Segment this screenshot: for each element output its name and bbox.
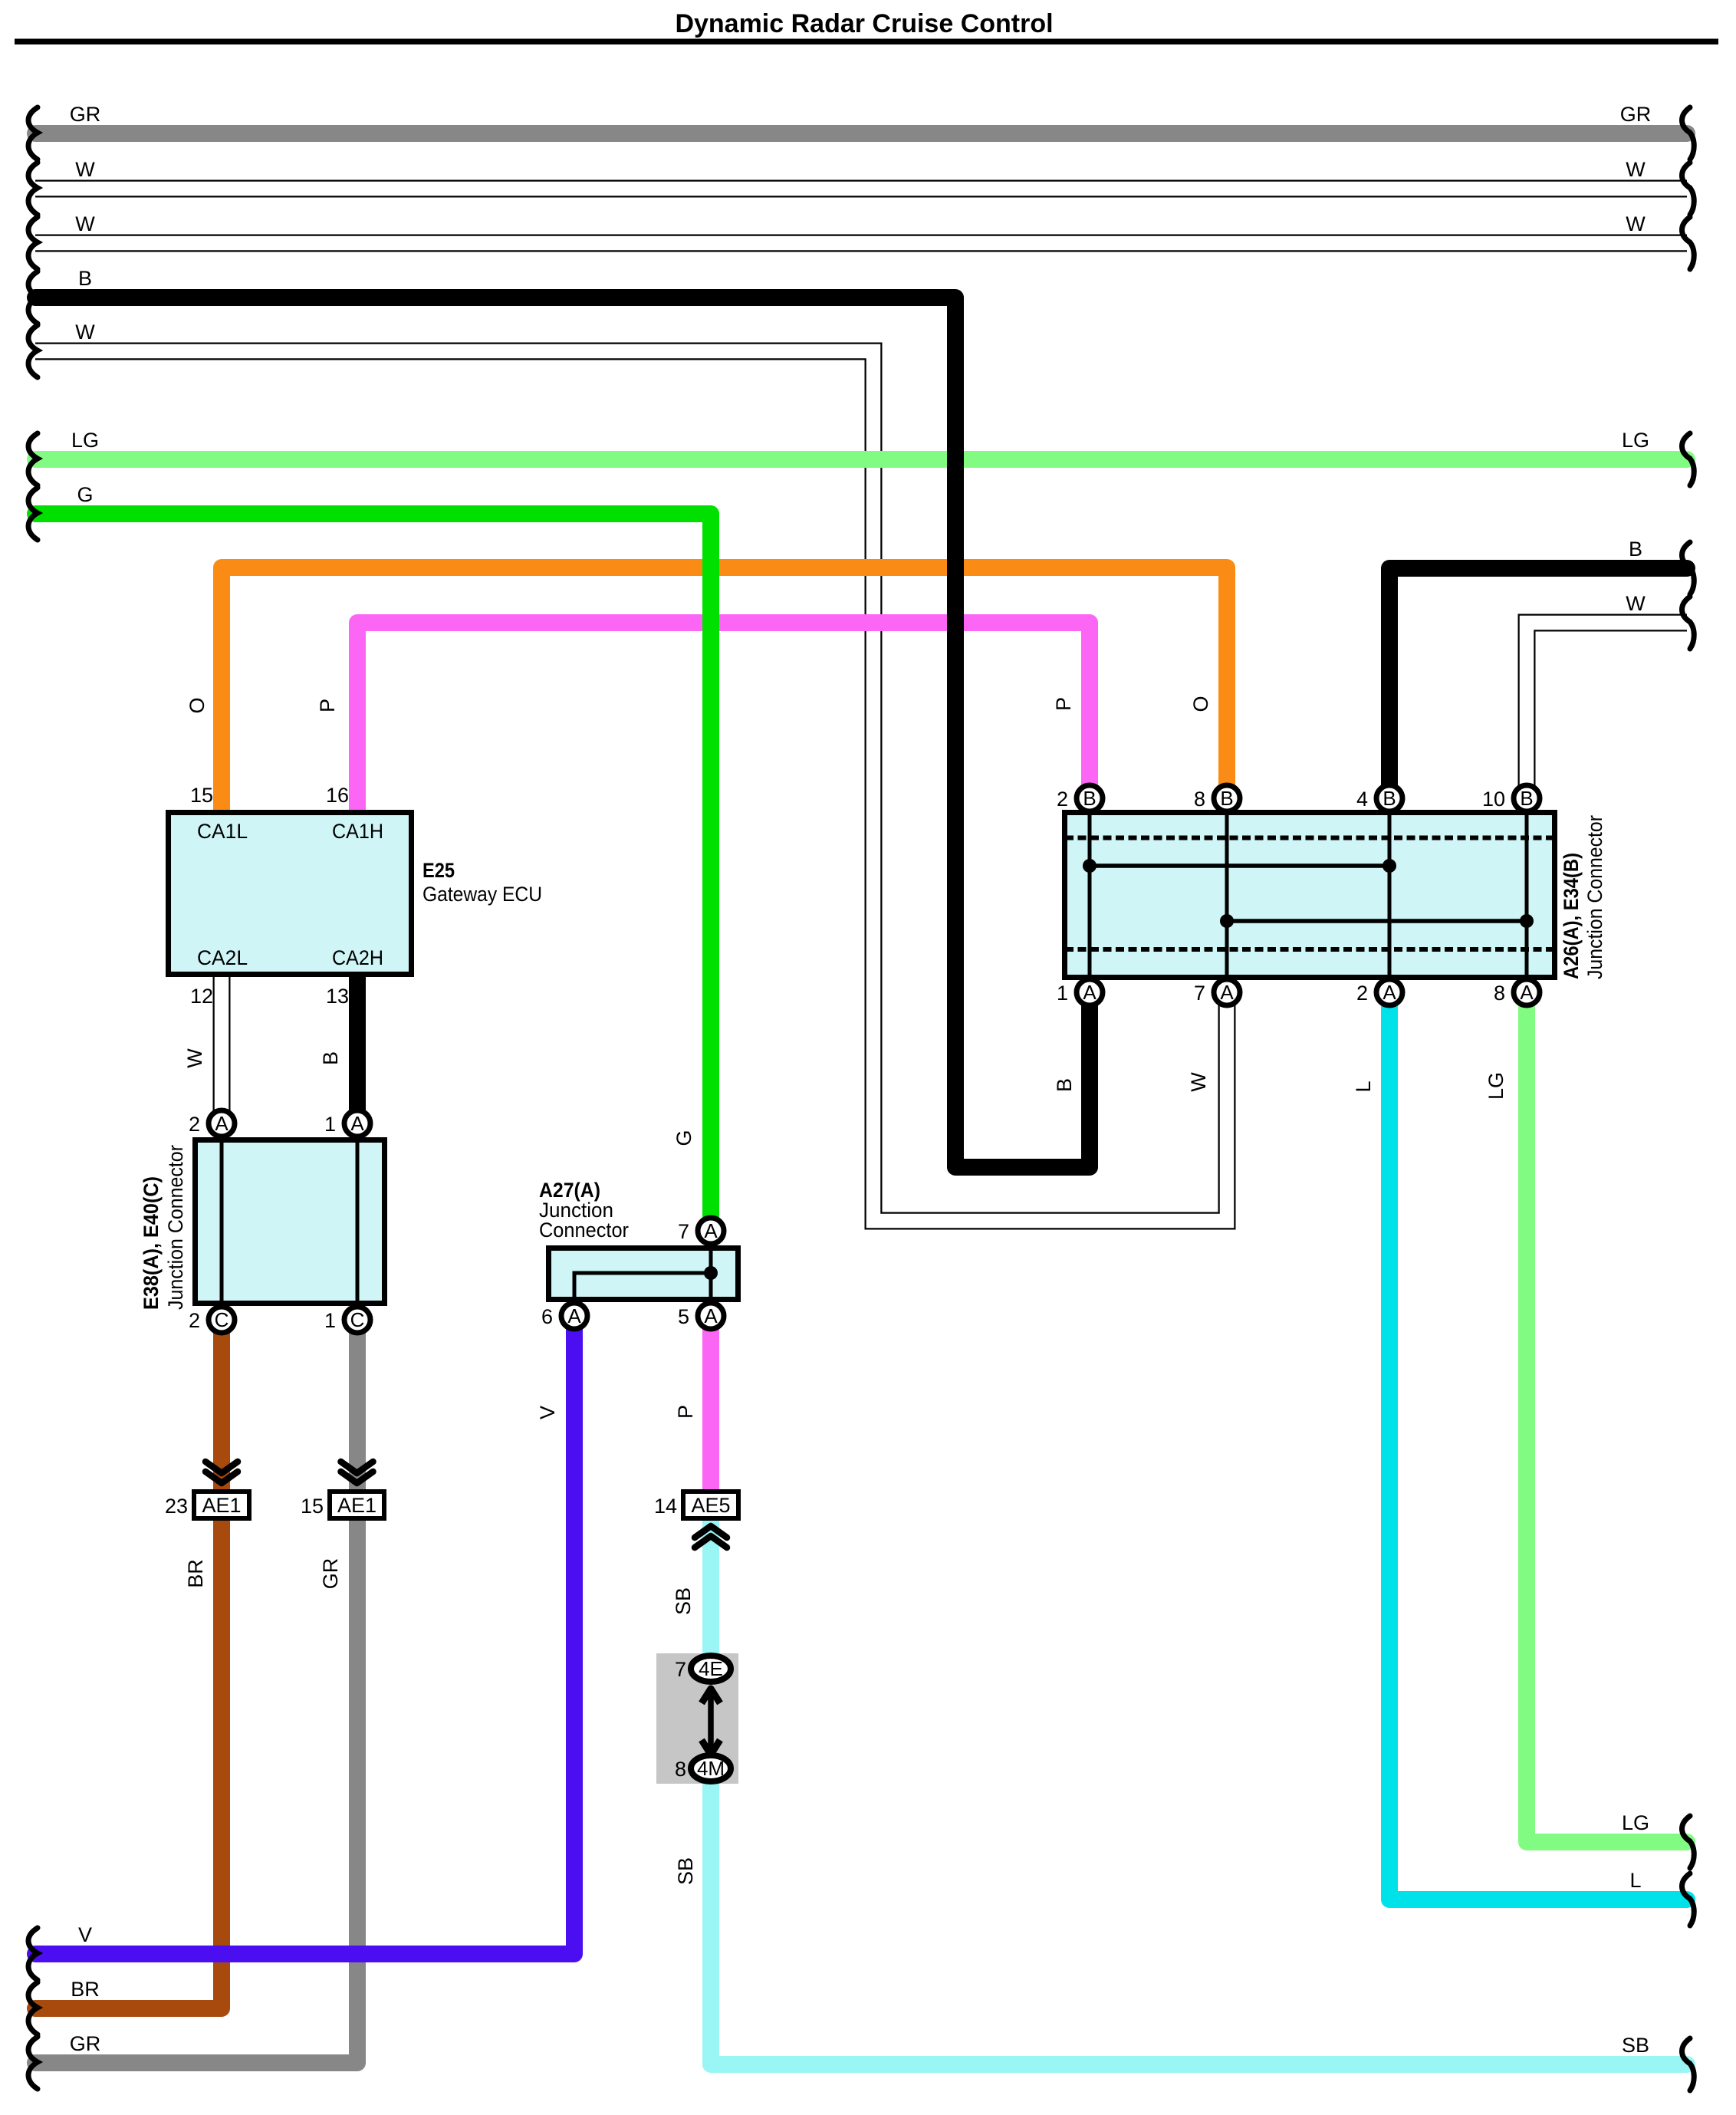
chevrons above AE1 no15 (341, 1462, 373, 1473)
svg-text:W: W (1187, 1072, 1210, 1092)
svg-text:P: P (316, 699, 339, 712)
svg-text:AE1: AE1 (202, 1494, 241, 1517)
wire W E25 pin12 to E38 pin 2A (white) (213, 974, 231, 1123)
svg-text:LG: LG (1622, 429, 1649, 452)
continuation symbol left LG top (28, 433, 38, 485)
svg-text:W: W (75, 321, 95, 344)
wire O (orange) E25 pin15 to A26 pin 8B (222, 567, 1227, 813)
continuation symbol right W2 (1682, 217, 1695, 269)
svg-text:A: A (567, 1304, 581, 1327)
wire SB upper (A27 5A via AE5 to 4E) (702, 1521, 719, 1656)
continuation symbol left GR bottom (28, 2037, 38, 2089)
gateway ECU E25 box (169, 813, 412, 975)
svg-text:A: A (1083, 981, 1097, 1004)
E38 label rotated (140, 1145, 187, 1310)
svg-text:2: 2 (1356, 982, 1368, 1005)
svg-text:O: O (1189, 696, 1212, 712)
continuation symbol left W3 (28, 325, 38, 377)
A26 solid bus 1 with junction dots (1090, 863, 1389, 868)
continuation symbol left W2 (28, 217, 38, 269)
A27 pin 7A (678, 1218, 724, 1244)
svg-text:B: B (319, 1051, 342, 1065)
continuation symbol left B top (28, 271, 38, 324)
wire GR bottom E38 pin 1C to left edge (35, 1320, 357, 2063)
svg-text:Junction Connector: Junction Connector (164, 1145, 187, 1310)
svg-text:16: 16 (326, 784, 349, 807)
svg-text:C: C (215, 1308, 229, 1331)
wire P (pink) E25 pin16 to A26 pin 2B (357, 623, 1090, 813)
svg-text:P: P (1052, 697, 1075, 711)
svg-text:A: A (1383, 981, 1396, 1004)
shielded pass-through 4E/4M block (656, 1653, 738, 1784)
svg-text:Junction Connector: Junction Connector (1583, 815, 1606, 979)
svg-text:8: 8 (675, 1758, 686, 1781)
chevrons below AE5 (695, 1526, 727, 1538)
svg-text:8: 8 (1194, 788, 1205, 811)
continuation symbol left BR (28, 1982, 38, 2034)
svg-text:4E: 4E (699, 1657, 723, 1680)
svg-text:2: 2 (1057, 788, 1068, 811)
continuation symbol left G (28, 488, 38, 540)
svg-text:G: G (672, 1130, 695, 1146)
wire LG bottom A26 pin 8A to right edge (1527, 992, 1687, 1842)
connector 4E (691, 1656, 731, 1682)
continuation symbol right LG bottom (1682, 1816, 1695, 1868)
svg-text:SB: SB (674, 1857, 697, 1885)
svg-text:4: 4 (1356, 788, 1368, 811)
svg-text:12: 12 (190, 985, 213, 1008)
A26 pin 1A (1057, 979, 1103, 1005)
connector AE1 no15 (330, 1492, 384, 1518)
continuation symbol right LG top (1682, 433, 1695, 485)
svg-text:6: 6 (541, 1305, 553, 1328)
svg-text:1: 1 (1057, 982, 1068, 1005)
svg-text:7: 7 (678, 1220, 689, 1243)
A26 pin 7A (1194, 979, 1240, 1005)
svg-text:4M: 4M (697, 1757, 725, 1780)
continuation symbol right B right (1682, 542, 1695, 594)
wire W2 (white) (35, 235, 1687, 252)
svg-text:C: C (350, 1308, 365, 1331)
svg-text:W: W (1626, 592, 1646, 615)
svg-text:B: B (1383, 787, 1396, 810)
svg-text:GR: GR (70, 2032, 101, 2055)
svg-text:LG: LG (1622, 1811, 1649, 1834)
svg-text:10: 10 (1482, 788, 1505, 811)
wire V A27 pin 6A to left edge (35, 1316, 574, 1954)
svg-text:AE1: AE1 (337, 1494, 376, 1517)
A27 pin 5A (678, 1303, 724, 1329)
svg-text:CA2L: CA2L (197, 946, 248, 969)
wire B E25 pin13 to E38 pin 1A (349, 974, 366, 1123)
svg-text:G: G (77, 483, 93, 506)
svg-text:W: W (75, 212, 95, 235)
connector AE1 no23 (194, 1492, 249, 1518)
chevrons above AE1 no23 (205, 1462, 727, 1548)
svg-text:5: 5 (678, 1305, 689, 1328)
svg-text:P: P (674, 1405, 697, 1419)
wire SB lower (4M to right edge) (711, 1771, 1687, 2064)
E38 pin 2A (189, 1110, 235, 1136)
svg-text:2: 2 (189, 1309, 200, 1332)
svg-text:Connector: Connector (539, 1219, 629, 1242)
continuation symbol left V (28, 1928, 38, 1980)
svg-text:LG: LG (71, 429, 99, 452)
wire L (cyan) A26 pin 2A to right edge (1389, 992, 1687, 1900)
svg-text:SB: SB (1622, 2034, 1649, 2057)
svg-text:Gateway ECU: Gateway ECU (422, 883, 542, 906)
wire B right edge to A26 pin 4B (1389, 568, 1687, 798)
svg-text:B: B (1083, 787, 1096, 810)
svg-text:V: V (78, 1923, 92, 1946)
svg-text:A: A (1520, 981, 1534, 1004)
svg-text:15: 15 (301, 1495, 324, 1518)
svg-text:W: W (1626, 158, 1646, 181)
continuation symbol right L (1682, 1873, 1695, 1926)
svg-text:A26(A), E34(B): A26(A), E34(B) (1560, 853, 1583, 979)
wire B top left edge to A26 pin 1A (35, 298, 1090, 1167)
svg-text:B: B (1629, 538, 1642, 561)
wire G (green) left edge to A27 pin 7A (35, 514, 711, 1231)
svg-text:L: L (1352, 1081, 1375, 1092)
svg-text:A: A (215, 1112, 229, 1135)
title rule (15, 39, 1718, 45)
svg-text:V: V (536, 1406, 559, 1419)
wire BR E38 pin 2C to left edge (35, 1320, 222, 2008)
A26 dashed bus lines (1065, 836, 1554, 840)
svg-text:W: W (75, 158, 95, 181)
svg-text:BR: BR (71, 1978, 100, 2001)
E38 pin 2C (189, 1307, 235, 1333)
junction connector A26(A), E34(B) box (1065, 813, 1555, 978)
A26 pin 8A (1494, 979, 1540, 1005)
wire LG top (35, 451, 1687, 468)
junction connector E38(A), E40(C) box (196, 1140, 385, 1304)
A26 pin 10B (1482, 785, 1540, 811)
svg-text:B: B (78, 267, 92, 290)
svg-text:1: 1 (324, 1309, 336, 1332)
svg-text:SB: SB (672, 1587, 695, 1615)
svg-text:2: 2 (189, 1113, 200, 1136)
svg-text:L: L (1629, 1869, 1641, 1892)
A26 pin 2A (1356, 979, 1402, 1005)
E38 pin 1C (324, 1307, 370, 1333)
E38 pin 1A (324, 1110, 370, 1136)
A26 solid bus 2 with junction dots (1227, 919, 1527, 923)
A26 pin 4B (1356, 785, 1402, 811)
svg-text:Dynamic Radar Cruise Control: Dynamic Radar Cruise Control (675, 9, 1053, 38)
svg-text:W: W (1626, 212, 1646, 235)
svg-text:15: 15 (190, 784, 213, 807)
A27 pin 6A (541, 1303, 587, 1329)
svg-text:LG: LG (1484, 1072, 1507, 1100)
svg-text:CA1H: CA1H (332, 820, 383, 843)
wire W1 (white) (35, 180, 1687, 198)
continuation symbol left GR top (28, 107, 38, 160)
svg-text:W: W (183, 1048, 206, 1068)
junction connector A27(A) box (549, 1248, 738, 1300)
svg-text:14: 14 (654, 1495, 677, 1518)
svg-text:23: 23 (165, 1495, 188, 1518)
svg-text:A: A (704, 1219, 718, 1242)
svg-text:O: O (186, 697, 209, 713)
svg-text:13: 13 (326, 985, 349, 1008)
continuation symbol right GR top (1682, 107, 1695, 160)
A26 internal pin lines (1088, 810, 1092, 977)
svg-text:A: A (704, 1304, 718, 1327)
svg-text:B: B (1053, 1078, 1076, 1092)
A26 label rotated (1560, 815, 1606, 979)
svg-text:7: 7 (675, 1658, 686, 1681)
svg-text:AE5: AE5 (691, 1494, 730, 1517)
svg-text:1: 1 (324, 1113, 336, 1136)
svg-text:7: 7 (1194, 982, 1205, 1005)
svg-text:CA1L: CA1L (197, 820, 248, 843)
svg-text:B: B (1220, 787, 1233, 810)
continuation symbol right W right (1682, 597, 1695, 649)
svg-text:GR: GR (319, 1558, 342, 1590)
wire P A27 pin 5A to AE5 (702, 1316, 719, 1494)
svg-text:E38(A), E40(C): E38(A), E40(C) (140, 1176, 163, 1310)
continuation symbol left W1 (28, 163, 38, 215)
svg-text:B: B (1520, 787, 1533, 810)
wire W right edge to A26 pin 10B (white) (1527, 623, 1687, 798)
svg-text:8: 8 (1494, 982, 1505, 1005)
svg-text:GR: GR (70, 103, 101, 126)
wire W3 loop (white) left edge to A26 pin 7A (35, 351, 1227, 1221)
svg-text:BR: BR (184, 1559, 207, 1588)
connector 4M (691, 1755, 731, 1781)
A26 pin 8B (1194, 785, 1240, 811)
continuation symbol right SB (1682, 2038, 1695, 2090)
A26 pin 2B (1057, 785, 1103, 811)
svg-text:A: A (1220, 981, 1234, 1004)
wire GR top (35, 125, 1687, 142)
svg-text:A: A (350, 1112, 364, 1135)
connector AE5 (683, 1492, 738, 1518)
double arrow between 4E and 4M (708, 1689, 714, 1754)
svg-text:GR: GR (1620, 103, 1652, 126)
svg-text:CA2H: CA2H (332, 946, 383, 969)
svg-text:E25: E25 (422, 859, 455, 882)
continuation symbol right W1 (1682, 163, 1695, 215)
